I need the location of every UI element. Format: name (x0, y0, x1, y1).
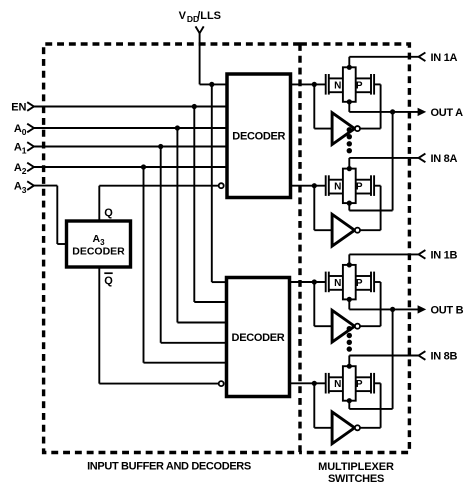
decoder block 1 label (232, 131, 285, 143)
input label A2 (14, 162, 27, 176)
svg-text:N: N (334, 379, 341, 390)
caption multiplexer switches (318, 461, 394, 485)
inverter for SW8A (314, 186, 380, 246)
svg-text:P: P (356, 379, 363, 390)
output label OUT B (431, 304, 464, 316)
svg-text:IN 8A: IN 8A (431, 153, 458, 165)
input arrow IN 1A (open chevron left) (419, 53, 426, 62)
wire input IN 1A (349, 57, 419, 68)
transmission gate SW1A (N/P) (291, 65, 381, 105)
wire input IN 8A (349, 158, 419, 169)
dashed separator between sections (298, 44, 301, 453)
junction A1 branch (158, 144, 163, 149)
wire output bus vertical SW8B (392, 309, 394, 409)
output arrow OUT B (filled) (418, 305, 427, 313)
input arrow A0 (open chevron right) (27, 124, 34, 133)
input label IN 8A (431, 153, 458, 165)
ellipsis dots (switches 2A-7A) (347, 127, 352, 153)
svg-text:IN 1A: IN 1A (431, 52, 458, 64)
input label IN 8B (431, 351, 458, 363)
inverter for SW8B (314, 383, 380, 443)
transmission gate SW1B (N/P) (290, 262, 381, 302)
svg-text:/LLS: /LLS (197, 10, 221, 22)
wire Q output to decoder 1 inverted input (99, 186, 218, 222)
wire A0 branch down to decoder 2 (177, 128, 227, 323)
wire SW8A output to bus (349, 203, 392, 210)
input arrow A1 (open chevron right) (27, 142, 34, 151)
svg-text:Q: Q (104, 207, 113, 219)
power pin V_DD/LLS label (179, 10, 221, 24)
wire V_DD branch down to decoder 2 (212, 84, 228, 282)
ellipsis dots (switches 2B-7B) (347, 326, 352, 352)
decoder block 2 (channel B) (227, 278, 290, 397)
decoder block 2 label (232, 332, 285, 344)
inverter for SW1A (314, 84, 380, 144)
svg-text:N: N (334, 182, 341, 193)
input arrow IN 8A (open chevron left) (419, 154, 426, 163)
svg-text:DECODER: DECODER (232, 332, 285, 344)
pin bubble decoder 1 inverted input (219, 183, 224, 188)
svg-text:P: P (356, 278, 363, 289)
svg-text:OUT B: OUT B (431, 304, 464, 316)
svg-text:OUT A: OUT A (431, 107, 464, 119)
input label IN 1A (431, 52, 458, 64)
junction A2 branch (141, 164, 146, 169)
input arrow IN 8B (open chevron left) (419, 351, 426, 360)
svg-text:DECODER: DECODER (72, 246, 125, 258)
input label A0 (14, 123, 27, 137)
decoder block 1 (channel A) (227, 74, 291, 198)
transmission gate SW8B (N/P) (290, 364, 381, 404)
input arrow IN 1B (open chevron left) (419, 250, 426, 259)
svg-text:INPUT BUFFER AND DECODERS: INPUT BUFFER AND DECODERS (87, 460, 251, 472)
svg-text:DECODER: DECODER (232, 131, 285, 143)
input arrow A3 (open chevron right) (27, 181, 34, 190)
wire Qbar output to decoder 2 inverted input (99, 266, 218, 384)
wire output bus vertical SW8A (392, 112, 394, 211)
power pin arrow (open chevron up) (196, 26, 204, 33)
input label A1 (14, 142, 27, 156)
wire A1 branch down to decoder 2 (161, 147, 228, 343)
pin bubble decoder 2 inverted input (219, 381, 224, 386)
junction EN branch (192, 104, 197, 109)
wire SW8B output to bus (349, 401, 392, 409)
A3 decoder label (72, 233, 125, 258)
junction V_DD branch (209, 82, 214, 87)
svg-text:P: P (356, 80, 363, 91)
svg-text:V: V (179, 10, 187, 22)
wire EN into decoder 1 (34, 106, 228, 108)
svg-text:SWITCHES: SWITCHES (328, 473, 384, 485)
wire V_DD vertical drop (199, 33, 201, 85)
svg-text:N: N (334, 278, 341, 289)
output arrow OUT A (filled) (418, 108, 427, 116)
wire input IN 8B (349, 356, 419, 367)
junction A0 branch (175, 125, 180, 130)
junction OUT B bus (390, 307, 395, 312)
svg-text:IN 1B: IN 1B (431, 249, 458, 261)
svg-text:Q: Q (104, 275, 113, 287)
svg-text:EN: EN (11, 102, 26, 114)
svg-text:IN 8B: IN 8B (431, 351, 458, 363)
node Qbar label (104, 273, 113, 287)
node Q label (104, 207, 113, 219)
wire output OUT B (349, 299, 419, 309)
input label A3 (14, 181, 27, 195)
inverter for SW1B (314, 282, 380, 342)
wire V_DD horizontal into decoder 1 (200, 83, 228, 85)
A3 decoder box (67, 221, 131, 267)
output label OUT A (431, 107, 464, 119)
dashed border: input buffer and decoders section (left outline) (44, 44, 300, 453)
input arrow EN (open chevron right) (27, 102, 34, 111)
svg-text:P: P (356, 182, 363, 193)
svg-text:N: N (334, 80, 341, 91)
wire A0 into decoder 1 (34, 127, 228, 129)
wire A3 to A3 decoder (34, 186, 68, 244)
input label EN (11, 102, 26, 114)
input arrow A2 (open chevron right) (27, 163, 34, 172)
wire EN branch down to decoder 2 (194, 107, 227, 303)
dashed border: multiplexer switches section (right outline) (300, 44, 409, 453)
wire A2 branch down to decoder 2 (144, 167, 228, 363)
wire input IN 1B (349, 254, 419, 265)
input label IN 1B (431, 249, 458, 261)
caption input buffer and decoders (87, 460, 251, 472)
wire A1 into decoder 1 (34, 146, 228, 148)
transmission gate SW8A (N/P) (291, 166, 381, 206)
wire output OUT A (349, 102, 419, 112)
svg-text:MULTIPLEXER: MULTIPLEXER (318, 461, 394, 473)
wire A2 into decoder 1 (34, 166, 228, 168)
junction OUT A bus (390, 109, 395, 114)
